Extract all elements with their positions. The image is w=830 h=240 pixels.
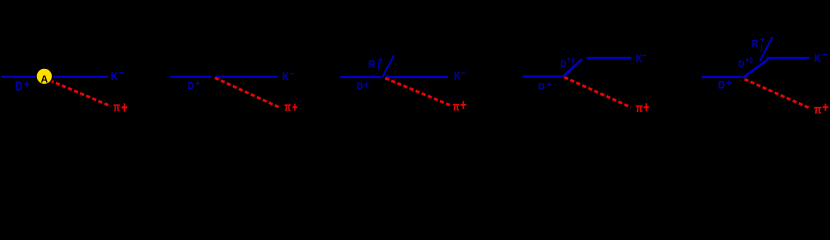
svg-text:−: − — [642, 51, 647, 62]
svg-text:π: π — [814, 103, 822, 117]
svg-text:−: − — [290, 69, 295, 80]
label pi+ (diagram 3) — [453, 98, 467, 114]
svg-text:+: + — [364, 80, 370, 90]
label pi+ (diagram 1) — [113, 99, 127, 116]
svg-text:K: K — [111, 71, 119, 83]
label K- (diagram 3) — [454, 68, 466, 82]
svg-text:A: A — [41, 75, 49, 86]
label D+ (diagram 3) — [357, 80, 370, 93]
svg-text:D: D — [357, 81, 363, 92]
label Rj+ (diagram 5) — [752, 35, 766, 53]
svg-text:+: + — [547, 80, 552, 90]
svg-text:j: j — [759, 42, 762, 52]
svg-text:+: + — [292, 100, 298, 115]
svg-text:j: j — [376, 60, 379, 70]
node: amplitude blob A (diagram 1) — [36, 68, 53, 85]
label D+ (diagram 4) — [538, 80, 552, 92]
svg-text:D: D — [538, 81, 545, 91]
svg-text:R: R — [752, 39, 759, 50]
svg-text:π: π — [636, 101, 643, 115]
svg-text:K: K — [454, 71, 461, 83]
svg-text:+: + — [195, 79, 201, 90]
svg-text:π: π — [284, 101, 291, 114]
svg-text:−: − — [822, 50, 827, 61]
wire: pi+ dashed line (diagram 3) — [385, 78, 451, 105]
svg-text:K: K — [814, 53, 821, 65]
label D*0 (diagram 4) — [561, 56, 575, 70]
svg-text:+: + — [644, 100, 649, 116]
label K- (diagram 4) — [636, 51, 647, 65]
wire: D+ line (diagram 5) — [702, 76, 742, 78]
wire: D+ line (diagram 4) — [522, 75, 562, 77]
svg-text:D: D — [15, 80, 22, 94]
svg-text:D: D — [718, 79, 725, 91]
label D+ (diagram 5) — [718, 77, 732, 92]
label K- (diagram 2) — [282, 69, 294, 83]
label pi+ (diagram 2) — [284, 100, 297, 115]
svg-text:R: R — [368, 59, 376, 70]
wire: D+ line (diagram 2) — [170, 76, 211, 78]
svg-text:*: * — [567, 56, 571, 66]
svg-text:D: D — [561, 59, 567, 70]
wire: D+/K- line (diagram 1) — [1, 76, 108, 78]
svg-text:−: − — [119, 68, 124, 79]
label K- (diagram 1) — [111, 68, 124, 83]
wire: K- line (diagram 2) — [216, 76, 277, 78]
svg-text:+: + — [822, 99, 828, 114]
svg-text:+: + — [122, 99, 128, 116]
svg-text:D: D — [738, 59, 744, 70]
svg-text:−: − — [461, 68, 466, 79]
wire: resonance diagonal (diagram 4) — [563, 59, 582, 77]
wire: resonance diagonal (diagram 5) — [743, 59, 768, 77]
wire: K- line (diagram 3) — [386, 76, 448, 78]
svg-text:K: K — [282, 71, 289, 83]
svg-text:D: D — [188, 81, 194, 92]
svg-text:π: π — [113, 101, 120, 114]
svg-text:0: 0 — [572, 56, 575, 65]
wire: pi+ dashed line (diagram 4) — [564, 77, 631, 107]
label D+ (diagram 1) — [15, 77, 29, 94]
svg-text:+: + — [726, 77, 732, 88]
label D+ (diagram 2) — [188, 79, 201, 92]
wire: pi+ dashed line (diagram 2) — [215, 78, 279, 107]
label K- (diagram 5) — [814, 50, 827, 65]
wire: D+ line (diagram 3) — [340, 76, 381, 78]
wire: resonance slash (diagram 3) — [383, 55, 395, 76]
wire: pi+ dashed line (diagram 5) — [745, 79, 811, 108]
svg-text:0: 0 — [749, 55, 753, 65]
wire: K- line (diagram 5) — [767, 57, 810, 59]
label Rj+ (diagram 3) — [368, 55, 383, 70]
label pi+ (diagram 5) — [814, 99, 829, 116]
label D*0 (diagram 5) — [738, 55, 753, 70]
wire: resonance slash (diagram 5) — [760, 37, 773, 61]
svg-text:+: + — [24, 77, 30, 91]
svg-text:π: π — [453, 101, 460, 114]
wire: pi+ dashed line (diagram 1) — [50, 80, 111, 106]
svg-text:+: + — [460, 98, 466, 113]
wire: K- line (diagram 4) — [587, 57, 632, 59]
label pi+ (diagram 4) — [636, 100, 649, 116]
